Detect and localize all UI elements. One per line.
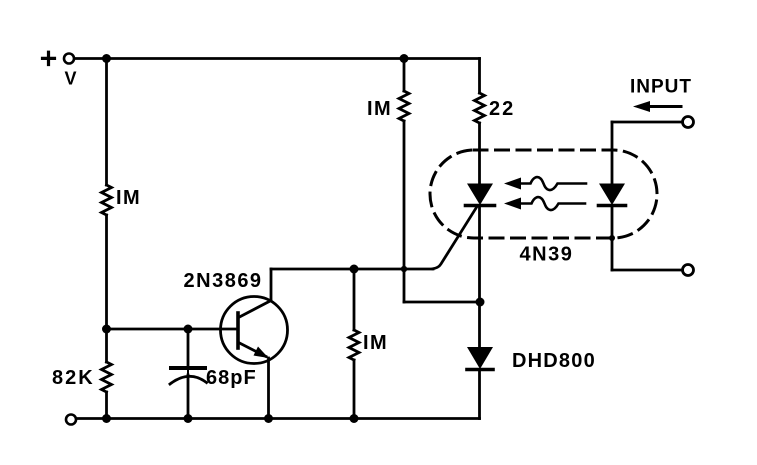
wire bottom rail xyxy=(77,417,480,420)
terminal input top xyxy=(683,117,694,128)
transistor Q1 2N3869 xyxy=(221,269,288,419)
diode D1 DHD800 xyxy=(467,347,493,370)
terminal V+ xyxy=(64,54,74,64)
LED cathode bar xyxy=(599,204,626,208)
small junction collector cross xyxy=(401,266,407,272)
wire right 1M lower lead xyxy=(403,121,406,302)
wire input top xyxy=(612,121,683,124)
svg-text:68pF: 68pF xyxy=(206,367,257,389)
resistor R1 1M left xyxy=(102,185,112,215)
resistor R3 1M mid xyxy=(349,330,359,360)
terminal bottom-left xyxy=(66,415,76,425)
wire 22 to SCR anode xyxy=(478,123,481,184)
junction bottom x107 xyxy=(102,414,111,423)
junction bottom x354 xyxy=(350,414,359,423)
gate wire diagonal xyxy=(433,207,477,269)
wire base xyxy=(107,328,237,331)
svg-text:82K: 82K xyxy=(52,367,95,389)
wire LED cathode down xyxy=(611,206,614,271)
wire SCR cathode down xyxy=(478,206,481,348)
svg-text:IM: IM xyxy=(116,187,141,209)
wire left vertical middle xyxy=(105,215,108,329)
optocoupler dashed outline 4N39 xyxy=(430,150,657,238)
resistor R2 82K xyxy=(102,362,112,392)
wire mid 1M upper lead xyxy=(353,269,356,330)
terminal input bottom xyxy=(683,265,694,276)
wire left vertical lower xyxy=(105,329,108,362)
junction top-left xyxy=(102,54,111,63)
wire 22 upper lead xyxy=(478,59,481,94)
resistor R4 1M right xyxy=(399,91,409,121)
svg-text:4N39: 4N39 xyxy=(520,244,574,266)
wire left vertical upper xyxy=(105,59,108,186)
photo-SCR U1a anode triangle xyxy=(467,184,493,206)
svg-text:V: V xyxy=(65,69,77,89)
small junction oval-led cross xyxy=(609,235,615,241)
label + xyxy=(43,52,55,64)
wire right 1M upper lead xyxy=(403,59,406,92)
junction cathode node xyxy=(476,298,485,307)
wire capacitor bottom lead xyxy=(187,375,190,419)
junction base node xyxy=(102,325,111,334)
light arrow upper xyxy=(504,177,586,190)
junction top rail x404 xyxy=(400,54,409,63)
svg-text:IM: IM xyxy=(363,332,388,354)
wire capacitor top lead xyxy=(187,329,190,367)
svg-text:IM: IM xyxy=(367,98,392,120)
junction bottom x188 xyxy=(184,414,193,423)
wire diode to rail xyxy=(478,370,481,419)
input arrow xyxy=(633,101,681,112)
wire collector rail xyxy=(271,268,433,271)
wire 82K to rail xyxy=(105,392,108,419)
svg-text:22: 22 xyxy=(489,98,515,120)
wire input bottom xyxy=(612,269,683,272)
capacitor C1 68pF xyxy=(170,368,207,384)
LED D2 triangle xyxy=(599,184,625,206)
junction capacitor top xyxy=(184,325,193,334)
junction collector x354 xyxy=(350,265,359,274)
junction bottom emitter xyxy=(264,414,273,423)
wire to cathode node xyxy=(404,301,480,304)
wire mid 1M lower lead xyxy=(353,360,356,419)
resistor R5 22 xyxy=(475,93,485,123)
svg-text:DHD800: DHD800 xyxy=(512,350,596,372)
wire top rail xyxy=(75,57,480,60)
svg-text:INPUT: INPUT xyxy=(630,77,692,98)
light arrow lower xyxy=(504,197,585,210)
photo-SCR cathode bar xyxy=(466,204,495,208)
svg-text:2N3869: 2N3869 xyxy=(184,270,263,292)
wire LED anode lead xyxy=(611,122,614,184)
